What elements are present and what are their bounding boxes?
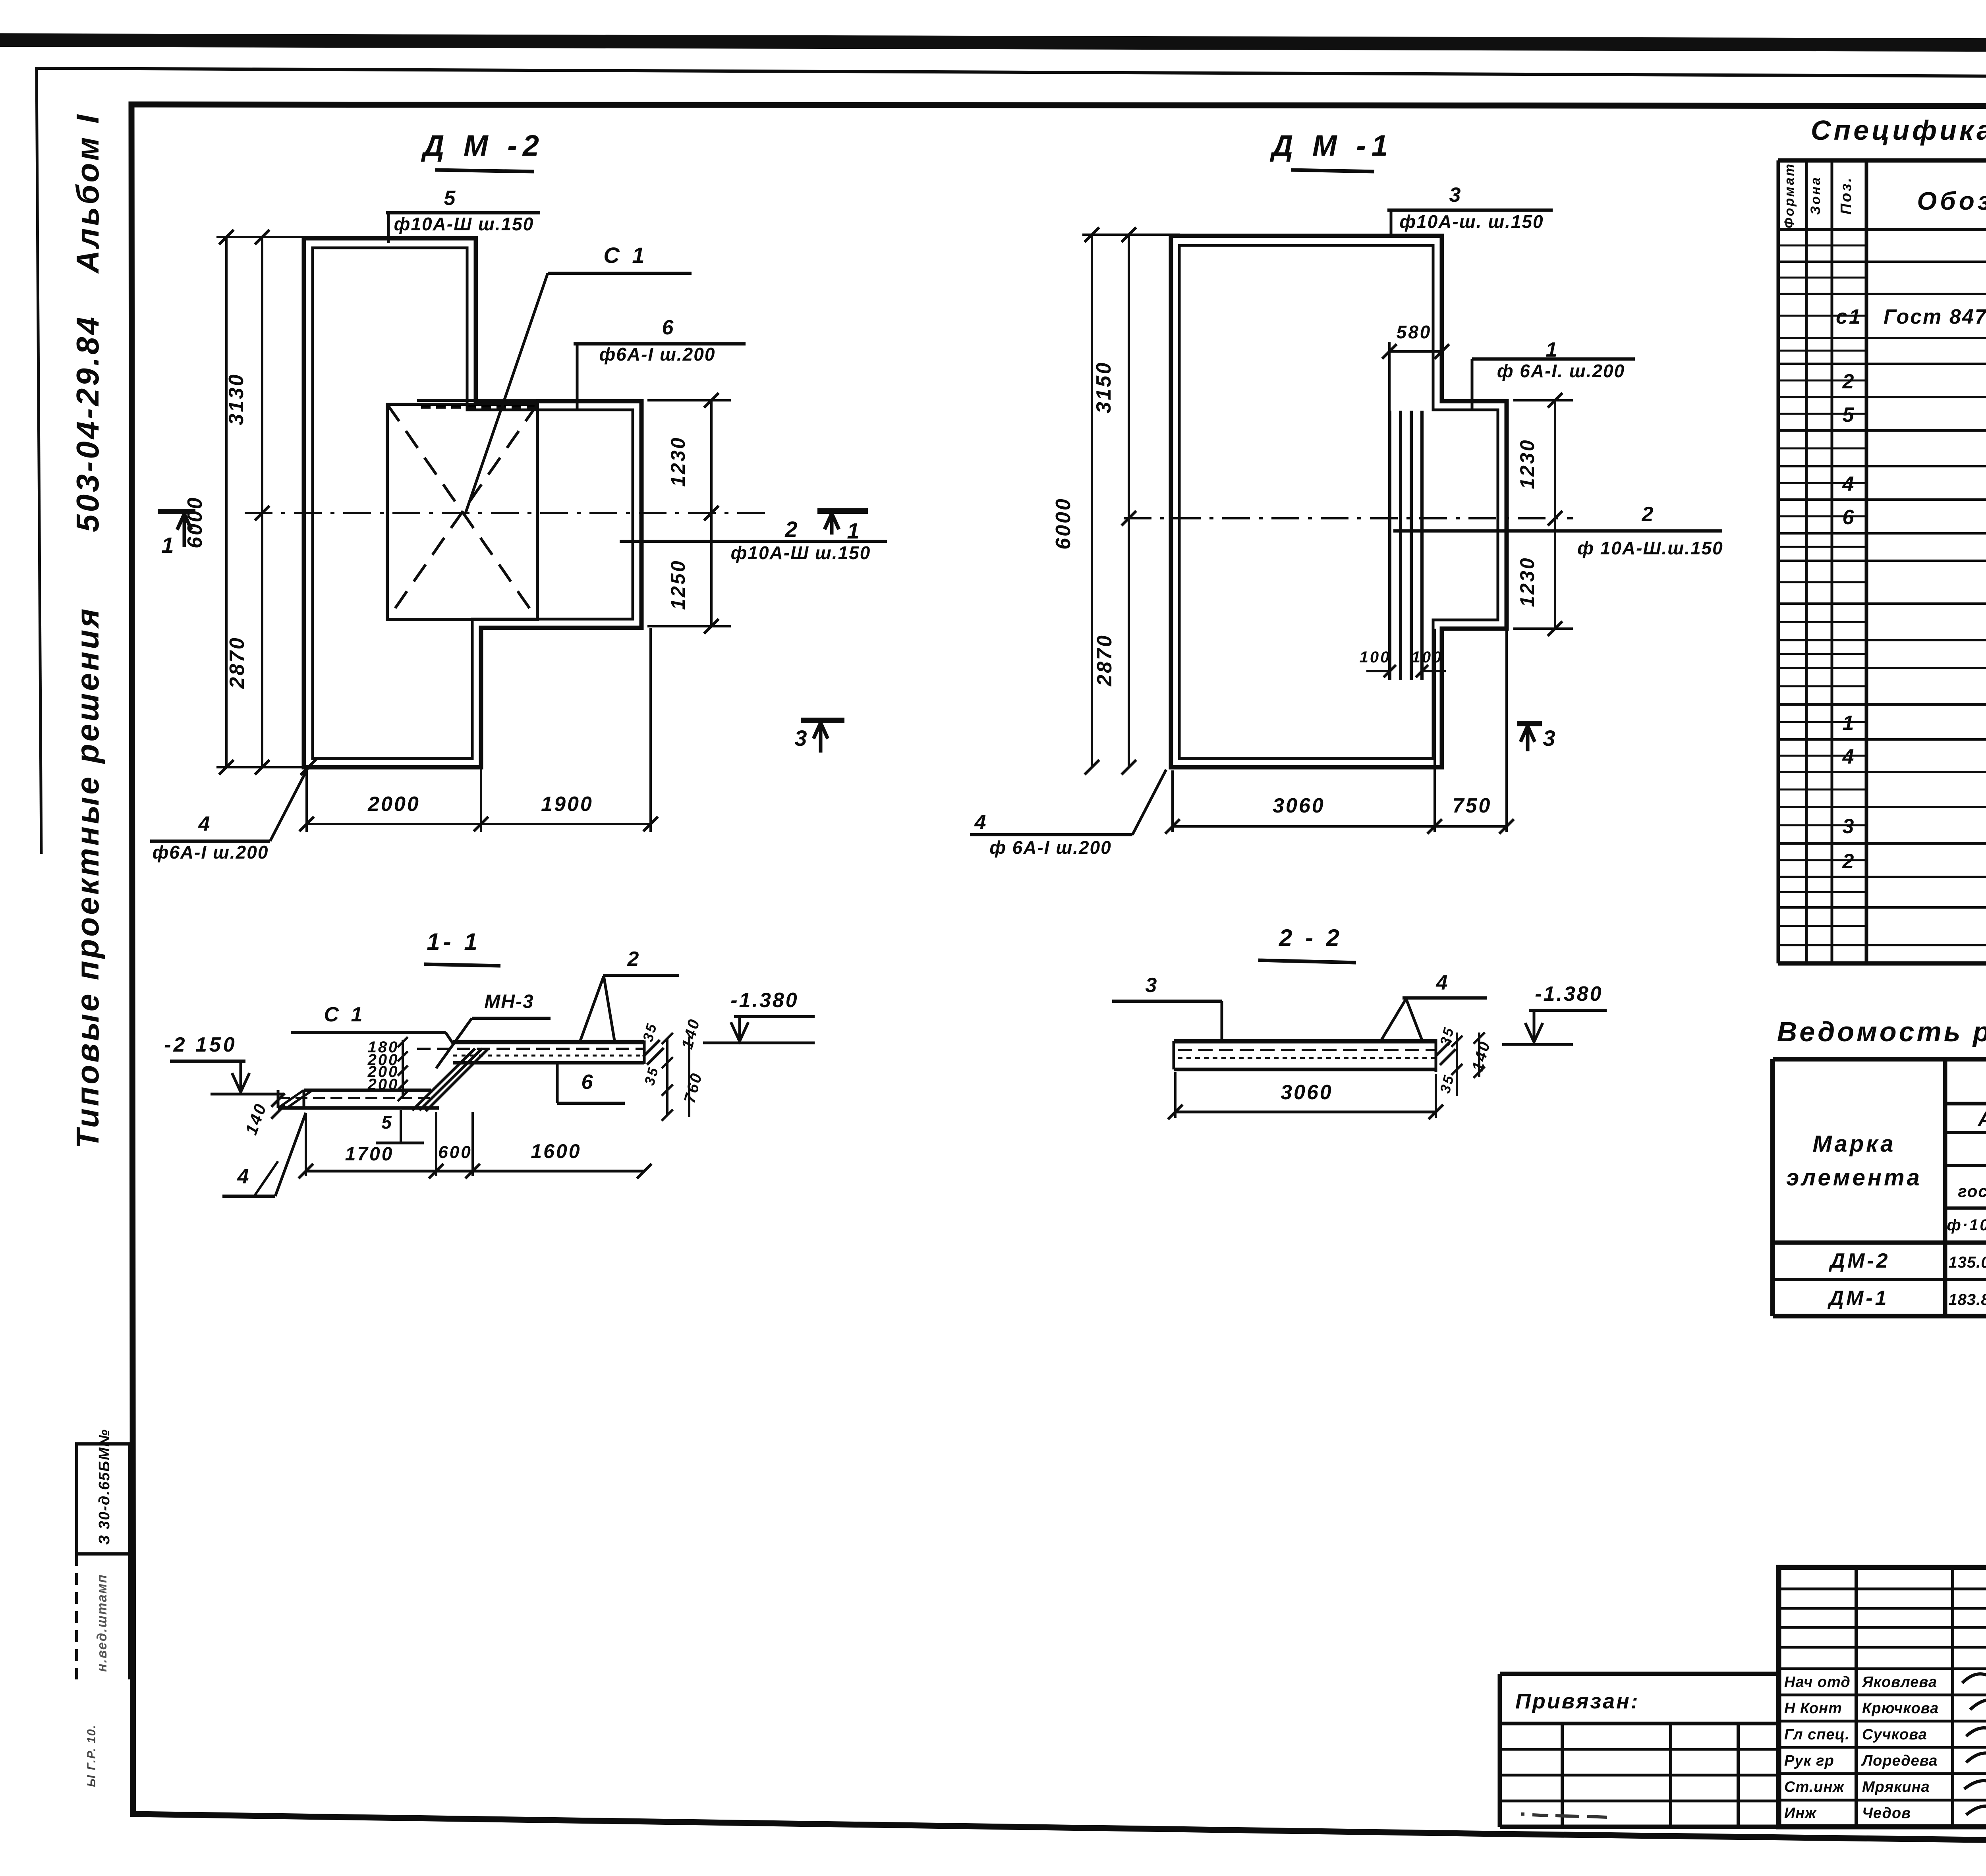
svg-text:гост 5781- 82: гост 5781- 82 [1958,1182,1986,1200]
svg-text:Н Конт: Н Конт [1784,1700,1842,1717]
svg-text:4: 4 [237,1165,251,1188]
svg-text:6: 6 [662,316,675,339]
svg-text:Крючкова: Крючкова [1862,1700,1939,1717]
svg-text:4: 4 [1436,971,1449,994]
svg-text:ф·10: ф·10 [1947,1216,1986,1234]
svg-text:100: 100 [1412,648,1443,666]
svg-text:100: 100 [1360,648,1391,666]
svg-text:Обозначение: Обозначение [1917,187,1986,215]
svg-text:Типовые проектные решения: Типовые проектные решения [70,606,105,1148]
svg-text:Ведомость расхода стали на эл: Ведомость расхода стали на элемент, кг. [1777,1016,1986,1047]
svg-text:5: 5 [381,1112,393,1133]
svg-text:ф10А-Ш ш.150: ф10А-Ш ш.150 [394,214,534,234]
svg-text:Альбом I: Альбом I [70,112,105,274]
svg-text:3150: 3150 [1092,361,1115,413]
svg-text:4: 4 [1842,473,1856,496]
svg-text:600: 600 [438,1143,472,1162]
svg-text:-1.380: -1.380 [730,989,798,1012]
svg-text:Марка: Марка [1812,1131,1895,1157]
svg-text:-2 150: -2 150 [164,1033,237,1056]
svg-text:135.0: 135.0 [1948,1254,1986,1271]
svg-text:ф10А-Ш ш.150: ф10А-Ш ш.150 [731,542,871,563]
svg-text:Гост 8476 - 78*: Гост 8476 - 78* [1884,305,1986,328]
svg-text:1700: 1700 [345,1144,394,1165]
svg-text:1230: 1230 [667,436,689,486]
svg-text:ДМ-1: ДМ-1 [1827,1287,1889,1310]
svg-text:4: 4 [198,813,212,836]
svg-text:1900: 1900 [541,793,593,816]
svg-text:Лоредева: Лоредева [1861,1752,1938,1769]
svg-text:1230: 1230 [1516,556,1538,607]
svg-text:Гл спец.: Гл спец. [1784,1726,1850,1743]
svg-text:2: 2 [627,948,641,971]
svg-text:2: 2 [784,517,799,542]
svg-text:1250: 1250 [667,559,689,610]
svg-text:6: 6 [1843,506,1856,529]
svg-text:Инж: Инж [1784,1805,1817,1822]
svg-text:Чедов: Чедов [1862,1805,1911,1822]
svg-text:Мрякина: Мрякина [1862,1779,1930,1795]
svg-text:580: 580 [1397,322,1432,342]
svg-text:Д М -2: Д М -2 [421,129,545,162]
svg-text:3: 3 [1449,183,1462,207]
svg-text:1: 1 [847,518,861,543]
svg-text:Привязан:: Привязан: [1515,1689,1640,1713]
svg-text:с1: с1 [1836,305,1862,328]
svg-text:1- 1: 1- 1 [427,928,480,955]
svg-text:ф 6А-I ш.200: ф 6А-I ш.200 [989,837,1112,858]
svg-text:З 30-д.65БМ№: З 30-д.65БМ№ [96,1429,113,1545]
svg-text:Рук гр: Рук гр [1784,1752,1834,1769]
svg-text:Спецификация на днища ДМ-1: Спецификация на днища ДМ-1 ÷ ДМ-2 [1811,115,1986,146]
svg-text:Поз.: Поз. [1838,176,1855,215]
svg-text:Яковлева: Яковлева [1862,1674,1937,1691]
svg-text:ф10А-ш. ш.150: ф10А-ш. ш.150 [1399,211,1544,232]
svg-text:Д М -1: Д М -1 [1269,129,1393,162]
svg-text:1: 1 [161,533,175,558]
svg-text:3: 3 [1146,974,1159,997]
svg-text:6000: 6000 [1052,497,1075,550]
svg-text:3: 3 [1843,815,1856,838]
svg-text:элемента: элемента [1786,1165,1922,1191]
svg-text:-1.380: -1.380 [1535,982,1603,1006]
svg-text:С 1: С 1 [603,243,647,268]
svg-text:2: 2 [1842,850,1856,873]
svg-text:2 - 2: 2 - 2 [1279,924,1343,951]
svg-text:2870: 2870 [226,636,249,689]
svg-text:МН-3: МН-3 [484,991,534,1012]
svg-text:3060: 3060 [1281,1081,1333,1104]
svg-text:Формат: Формат [1782,162,1797,228]
svg-text:2: 2 [1842,370,1856,393]
svg-text:3: 3 [794,726,808,751]
svg-text:4: 4 [1842,745,1856,768]
svg-text:4: 4 [974,811,988,834]
svg-text:н.вед.штамп: н.вед.штамп [95,1574,110,1672]
svg-text:ф 6А-I. ш.200: ф 6А-I. ш.200 [1497,361,1625,381]
svg-text:3: 3 [1543,726,1557,751]
svg-text:ф6А-I ш.200: ф6А-I ш.200 [153,842,269,863]
svg-text:2000: 2000 [367,793,420,816]
svg-text:3130: 3130 [225,373,248,425]
svg-text:С 1: С 1 [324,1003,366,1026]
svg-text:750: 750 [1453,794,1492,817]
svg-text:6: 6 [582,1071,595,1094]
svg-text:Арматура класса: Арматура класса [1977,1108,1986,1131]
svg-text:503-04-29.84: 503-04-29.84 [70,315,105,532]
svg-text:5: 5 [1843,403,1856,427]
svg-text:Нач отд: Нач отд [1784,1674,1851,1691]
svg-text:Ст.инж: Ст.инж [1784,1779,1845,1795]
svg-text:1600: 1600 [531,1140,581,1162]
svg-text:ДМ-2: ДМ-2 [1828,1249,1890,1272]
svg-text:ф6А-I ш.200: ф6А-I ш.200 [599,344,716,365]
svg-text:1: 1 [1843,712,1856,735]
svg-text:2: 2 [1642,503,1655,526]
svg-text:183.8: 183.8 [1948,1291,1986,1309]
svg-text:1230: 1230 [1516,438,1538,489]
svg-text:Ы Г.Р. 10.: Ы Г.Р. 10. [85,1724,98,1787]
svg-text:2870: 2870 [1093,634,1116,687]
svg-text:Зона: Зона [1808,176,1823,215]
svg-text:3060: 3060 [1273,794,1325,817]
svg-text:5: 5 [444,187,457,210]
svg-text:Сучкова: Сучкова [1862,1726,1927,1743]
svg-text:200: 200 [367,1076,399,1093]
svg-text:ф 10А-Ш.ш.150: ф 10А-Ш.ш.150 [1577,538,1723,558]
